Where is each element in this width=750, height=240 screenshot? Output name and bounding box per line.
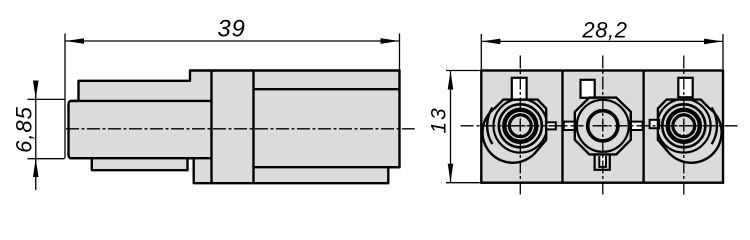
dim 28,2 line xyxy=(481,40,723,42)
connector 2 center cross xyxy=(598,121,608,131)
connector 1 ring middle xyxy=(504,110,536,142)
dim 6,85 line xyxy=(35,81,37,190)
connector 3 ring middle xyxy=(668,110,700,142)
connector 1 outer profile xyxy=(483,100,547,163)
connector 1 center cross xyxy=(515,121,525,131)
dim 39 extension line right xyxy=(399,34,401,71)
connector 3 bore circle xyxy=(657,99,711,153)
connector 2 circle xyxy=(588,111,618,141)
dim 28,2 arrow left xyxy=(482,39,501,45)
connector 1 top slot xyxy=(512,78,527,100)
svg-text:13: 13 xyxy=(428,107,451,134)
dim 6,85 extension bottom xyxy=(28,158,65,160)
cylinder top line xyxy=(70,100,212,102)
body inner top line xyxy=(254,88,400,90)
dim 39 arrow left xyxy=(66,38,85,44)
left side view silhouette xyxy=(69,71,400,184)
dim 13 arrow bottom xyxy=(448,164,454,183)
connector 2 octagon xyxy=(575,98,631,155)
cylinder bottom line xyxy=(70,157,212,159)
dim 39 line xyxy=(65,40,400,42)
svg-text:28,2: 28,2 xyxy=(581,18,627,43)
connector 3 vertical center line xyxy=(683,56,685,195)
body bottom inner line xyxy=(254,166,400,168)
connector 2 bottom tab inner xyxy=(599,156,606,167)
front view horizontal center line xyxy=(461,125,738,127)
connector 3 center cross xyxy=(679,121,689,131)
connector 3 outer profile xyxy=(658,100,722,163)
cell divider 2 xyxy=(642,71,644,182)
connector 3 ring inner xyxy=(673,115,695,137)
dim 6,85 extension top xyxy=(28,98,65,100)
svg-text:39: 39 xyxy=(217,16,245,43)
column left edge xyxy=(210,71,212,184)
dim 6,85 arrow top xyxy=(33,81,39,99)
dim 28,2 arrow right xyxy=(704,39,723,45)
connector 2 vertical center line xyxy=(602,56,604,195)
dim 28,2 extension right xyxy=(722,34,724,69)
svg-text:6,85: 6,85 xyxy=(12,106,37,153)
connector 3 left tab xyxy=(650,120,660,128)
dim 6,85 arrow bottom xyxy=(33,159,39,177)
dim 13 line xyxy=(450,71,452,183)
left view axis center line xyxy=(66,128,415,130)
front view block xyxy=(481,71,723,183)
connector 1 ring outer xyxy=(499,104,542,147)
connector 3 top slot xyxy=(678,78,692,98)
connector 1 ring inner xyxy=(509,115,531,137)
connector 3 outer sleeve arc xyxy=(712,108,717,145)
connector 1 right tab xyxy=(546,122,556,129)
dim 13 extension bottom xyxy=(446,182,480,184)
dim 13 extension top xyxy=(446,70,480,72)
connector 2 top tab xyxy=(581,80,595,98)
connector 3 ring outer xyxy=(662,104,705,147)
connector 1 outer sleeve arc xyxy=(487,108,492,145)
connector 1 bore circle xyxy=(494,99,548,153)
cell divider 1 xyxy=(561,71,563,182)
column right edge / section boundary xyxy=(252,71,254,184)
connector 2 bottom tab outer xyxy=(595,156,610,170)
connector 2 bore circle xyxy=(577,100,629,152)
dim 39 arrow right xyxy=(381,38,400,44)
connector 2 right tab xyxy=(631,122,643,130)
dim 28,2 extension left xyxy=(480,34,482,69)
dim 13 arrow top xyxy=(448,71,454,90)
dim 39 extension line left xyxy=(64,34,66,159)
connector 1 vertical center line xyxy=(519,56,521,195)
connector 2 left tab xyxy=(564,122,575,130)
